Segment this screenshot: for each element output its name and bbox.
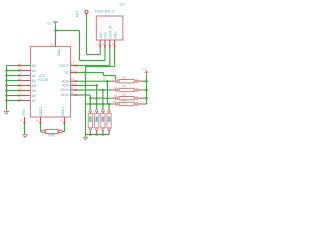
svg-text:2: 2: [98, 42, 100, 46]
svg-text:R1: R1: [104, 77, 108, 81]
svg-text:ANT: ANT: [99, 32, 103, 38]
svg-text:11: 11: [71, 86, 74, 90]
svg-text:A0: A0: [32, 64, 36, 68]
svg-text:R4: R4: [113, 100, 117, 104]
svg-text:A7: A7: [32, 99, 36, 103]
svg-text:DOUT: DOUT: [59, 64, 69, 68]
svg-text:750k: 750k: [48, 134, 56, 138]
svg-text:10: 10: [71, 91, 74, 95]
svg-text:17: 17: [71, 61, 74, 65]
svg-text:TWS-BS-3: TWS-BS-3: [95, 9, 115, 14]
svg-text:R2: R2: [114, 86, 118, 90]
svg-text:15: 15: [60, 118, 63, 122]
svg-text:AD11: AD11: [61, 93, 69, 97]
svg-text:8: 8: [20, 96, 22, 100]
svg-text:OSC1: OSC1: [61, 107, 65, 116]
svg-text:TE: TE: [64, 71, 69, 75]
svg-text:A6: A6: [32, 94, 36, 98]
svg-text:GND: GND: [113, 31, 117, 39]
svg-text:U3: U3: [120, 2, 126, 7]
svg-text:9: 9: [21, 118, 23, 122]
svg-text:10k: 10k: [122, 98, 127, 102]
svg-text:A3: A3: [32, 79, 36, 83]
svg-text:7: 7: [20, 91, 22, 95]
svg-text:10k: 10k: [122, 75, 127, 79]
svg-text:3: 3: [20, 71, 22, 75]
svg-text:VDD: VDD: [57, 49, 61, 57]
svg-text:18: 18: [51, 43, 54, 47]
svg-text:OSC2: OSC2: [39, 107, 43, 116]
svg-text:DATA_IN: DATA_IN: [109, 25, 113, 39]
svg-text:A5: A5: [32, 89, 36, 93]
svg-text:5: 5: [20, 81, 22, 85]
svg-text:10k: 10k: [122, 84, 127, 88]
svg-text:VSS: VSS: [22, 108, 26, 116]
svg-text:HT12E: HT12E: [38, 78, 49, 82]
svg-text:VCC: VCC: [46, 22, 52, 26]
svg-text:14: 14: [71, 68, 74, 72]
svg-text:AD10: AD10: [60, 88, 69, 92]
svg-text:A2: A2: [32, 74, 36, 78]
svg-text:3: 3: [102, 42, 104, 46]
svg-text:VCC: VCC: [142, 68, 148, 72]
svg-text:2: 2: [20, 66, 22, 70]
svg-text:R3: R3: [114, 94, 118, 98]
svg-text:4: 4: [112, 42, 114, 46]
svg-text:12: 12: [71, 81, 74, 85]
svg-text:1: 1: [20, 61, 22, 65]
svg-text:13: 13: [71, 77, 74, 81]
svg-text:AD9: AD9: [62, 84, 69, 88]
svg-text:A4: A4: [32, 84, 36, 88]
svg-text:16: 16: [36, 118, 39, 122]
svg-text:VCC: VCC: [104, 31, 108, 38]
svg-text:4: 4: [20, 76, 22, 80]
svg-text:6: 6: [20, 86, 22, 90]
svg-text:ANT: ANT: [76, 11, 80, 18]
svg-text:10k: 10k: [122, 92, 127, 96]
svg-text:1: 1: [107, 42, 109, 46]
svg-text:A1: A1: [32, 69, 36, 73]
